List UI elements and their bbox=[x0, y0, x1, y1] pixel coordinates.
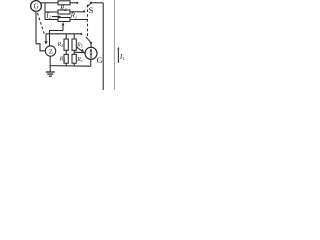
svg-text:S: S bbox=[89, 5, 94, 15]
wiper arrow to galvanometer bbox=[77, 47, 82, 51]
switch blade upper bbox=[87, 3, 91, 6]
resistor R2 bbox=[58, 1, 70, 5]
node top right bbox=[90, 2, 92, 4]
wire junction to galvanometer bbox=[74, 51, 85, 54]
svg-text:Z: Z bbox=[49, 48, 53, 55]
wire row2 left bbox=[45, 11, 58, 13]
wire row3 left bbox=[45, 19, 58, 21]
svg-text:R6: R6 bbox=[59, 57, 67, 63]
resistor R6 bbox=[64, 54, 68, 63]
wire to Z bbox=[36, 44, 45, 51]
wire middle bus bbox=[46, 33, 80, 35]
wire R4 to R6 bbox=[65, 50, 67, 54]
switch blade lower bbox=[86, 37, 91, 43]
impedance Z bbox=[45, 46, 55, 56]
wiper arrow of R3 bbox=[62, 25, 64, 31]
current arrow I1 bbox=[117, 50, 119, 63]
resistor R5 bbox=[72, 39, 76, 50]
wire galvanometer bottom bbox=[90, 59, 92, 66]
wire row3 right bbox=[70, 19, 87, 21]
wire galvanometer top bbox=[90, 44, 92, 48]
svg-text:R1: R1 bbox=[70, 12, 78, 20]
switch S dashed line bbox=[87, 5, 89, 37]
wire top right bbox=[91, 2, 103, 4]
node switch pivot bbox=[90, 42, 92, 44]
ground bbox=[46, 71, 55, 73]
wire stub to R4 bbox=[65, 34, 67, 39]
wire left bus vertical bbox=[44, 3, 46, 20]
svg-text:Rs: Rs bbox=[76, 57, 83, 63]
wire generator to left bus bbox=[41, 2, 45, 4]
needle of galvanometer bbox=[90, 51, 92, 59]
resistor Rs bbox=[72, 54, 76, 63]
galvanometer U2 bbox=[85, 47, 97, 59]
svg-text:G: G bbox=[34, 3, 39, 11]
wire R5 to Rs bbox=[73, 50, 75, 54]
resistor R1 bbox=[58, 10, 70, 14]
wire wiper to Z node bbox=[50, 31, 64, 47]
node middle bus bbox=[80, 33, 82, 35]
wire bottom bus bbox=[50, 65, 91, 68]
wire row1 left bbox=[45, 2, 58, 4]
resistor R4 bbox=[64, 39, 68, 50]
wire Rs bottom stub bbox=[73, 63, 75, 66]
node contact row2 bbox=[83, 11, 85, 13]
wire Z bottom bbox=[49, 56, 51, 66]
arrow into Z bbox=[44, 41, 47, 45]
potentiometer R3 bbox=[58, 18, 70, 22]
svg-text:G: G bbox=[97, 56, 103, 65]
current arrow I2 bbox=[52, 16, 58, 18]
svg-text:R4: R4 bbox=[57, 42, 64, 48]
dashed link generator to Z bbox=[38, 13, 45, 36]
wire generator down bbox=[35, 11, 37, 44]
generator U1 (AC source circle G) bbox=[31, 1, 42, 12]
wire right vertical bbox=[102, 3, 104, 90]
wire stub to R5 bbox=[73, 34, 75, 39]
wire row2 right bbox=[70, 11, 83, 13]
ground stem bbox=[49, 66, 51, 72]
wire row1 right bbox=[70, 2, 76, 4]
page rule line bbox=[113, 0, 115, 90]
node contact row1 bbox=[76, 2, 78, 4]
wire R6 bottom stub bbox=[65, 63, 67, 66]
svg-text:I1: I1 bbox=[119, 52, 125, 61]
